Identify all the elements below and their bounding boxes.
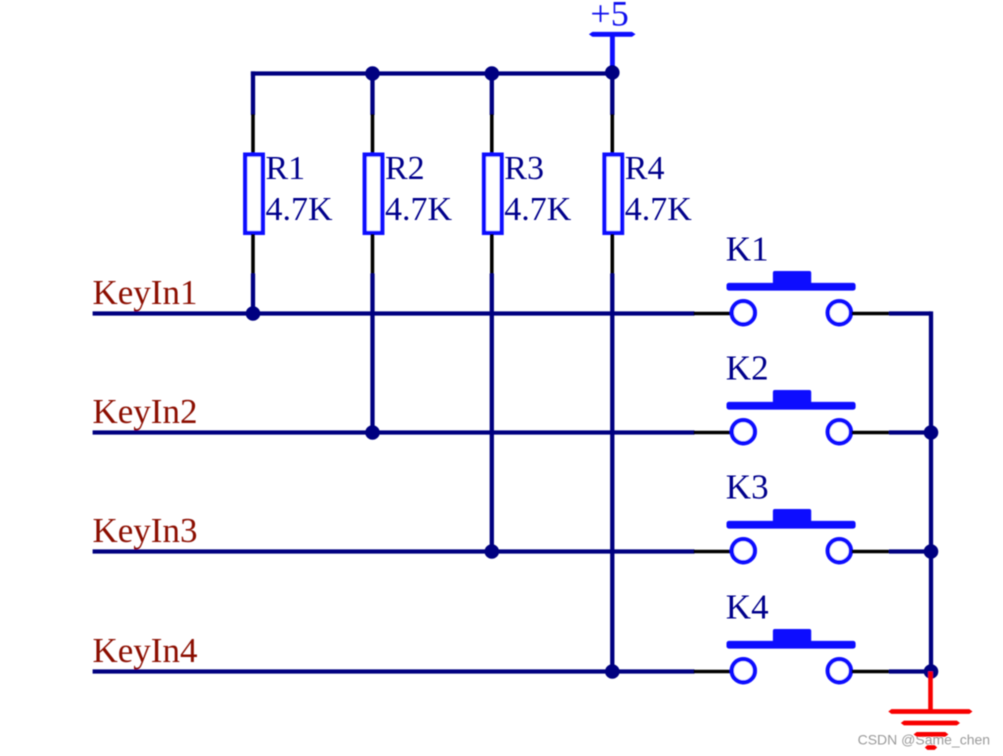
svg-text:K2: K2 — [726, 349, 769, 388]
switch K3 contact circle left — [732, 539, 755, 562]
svg-text:4.7K: 4.7K — [385, 191, 453, 228]
wire R4 column upper — [610, 74, 614, 116]
svg-text:KeyIn4: KeyIn4 — [93, 631, 198, 670]
svg-text:4.7K: 4.7K — [625, 191, 693, 228]
wire KeyIn3 row — [93, 549, 695, 553]
svg-text:KeyIn2: KeyIn2 — [93, 392, 198, 431]
svg-text:R4: R4 — [625, 150, 665, 187]
switch K2 contact circle right — [828, 420, 851, 443]
node junction K2-rail — [924, 425, 939, 440]
node junction bus +5 — [605, 65, 620, 80]
node junction KeyIn2-R2 — [365, 425, 380, 440]
resistor R4 pin 1 — [610, 114, 614, 154]
switch K1 pin 1 lead — [694, 312, 732, 316]
wire right rail vertical — [929, 311, 933, 671]
wire K1 to right rail — [889, 311, 931, 315]
svg-text:K3: K3 — [726, 468, 769, 507]
svg-text:KeyIn1: KeyIn1 — [93, 273, 198, 312]
node junction bus-R2 — [365, 66, 380, 81]
resistor R3 pin 1 — [490, 114, 494, 154]
switch K1 contact circle right — [828, 301, 851, 324]
node junction KeyIn4-R4 — [605, 664, 620, 679]
wire KeyIn1 row — [93, 311, 695, 315]
switch K2 contact circle left — [732, 420, 755, 443]
power +5 stem wire — [610, 34, 615, 72]
wire K4 to right rail — [889, 669, 931, 673]
switch K3 button cap — [727, 509, 856, 529]
resistor R2 pin 1 — [371, 114, 375, 154]
switch K1 pin 2 lead — [852, 312, 890, 316]
wire top bus — [251, 71, 612, 75]
svg-text:K4: K4 — [726, 588, 769, 627]
switch K2 pin 1 lead — [694, 431, 732, 435]
svg-text:KeyIn3: KeyIn3 — [93, 511, 198, 550]
switch K4 contact circle right — [828, 659, 851, 682]
node junction KeyIn3-R3 — [485, 544, 500, 559]
svg-text:R1: R1 — [266, 150, 306, 187]
wire R4 column lower — [610, 274, 614, 672]
switch K1 button cap — [727, 271, 856, 291]
svg-text:4.7K: 4.7K — [504, 191, 572, 228]
resistor R1 pin 2 — [251, 234, 255, 275]
wire KeyIn2 row — [93, 430, 695, 434]
ground stem wire — [928, 672, 933, 712]
wire R3 column upper — [490, 74, 494, 116]
resistor R1 body — [245, 155, 263, 233]
resistor R3 pin 2 — [490, 234, 494, 275]
ground bar 3 — [914, 732, 949, 737]
resistor R2 pin 2 — [371, 234, 375, 275]
wire KeyIn4 row — [93, 669, 695, 673]
switch K4 pin 1 lead — [694, 670, 732, 674]
power +5 bar symbol — [589, 32, 636, 37]
switch K1 contact circle left — [732, 301, 755, 324]
switch K2 button cap — [727, 390, 856, 410]
svg-text:+5: +5 — [590, 0, 628, 34]
svg-text:R2: R2 — [385, 150, 425, 187]
resistor R2 body — [365, 155, 383, 233]
switch K4 pin 2 lead — [852, 670, 890, 674]
svg-text:4.7K: 4.7K — [266, 191, 334, 228]
resistor R3 body — [484, 155, 502, 233]
switch K2 pin 2 lead — [852, 431, 890, 435]
svg-text:R3: R3 — [504, 150, 544, 187]
wire R3 column lower — [490, 274, 494, 552]
node junction rail-ground — [924, 664, 939, 679]
switch K4 button cap — [727, 629, 856, 649]
wire K2 to right rail — [889, 430, 931, 434]
switch K3 contact circle right — [828, 539, 851, 562]
node junction K3-rail — [924, 544, 939, 559]
wire R1 column upper — [251, 71, 255, 115]
resistor R1 pin 1 — [251, 114, 255, 154]
ground bar 1 — [888, 709, 972, 714]
node junction KeyIn1-R1 — [246, 306, 261, 321]
ground bar 4 — [925, 745, 937, 750]
svg-text:K1: K1 — [726, 229, 769, 268]
wire K3 to right rail — [889, 549, 931, 553]
resistor R4 pin 2 — [610, 234, 614, 275]
wire R1 column lower — [251, 274, 255, 314]
switch K3 pin 2 lead — [852, 550, 890, 554]
switch K4 contact circle left — [732, 659, 755, 682]
node junction bus-R3 — [485, 66, 500, 81]
switch K3 pin 1 lead — [694, 550, 732, 554]
wire R2 column upper — [370, 74, 374, 116]
ground bar 2 — [901, 721, 960, 726]
wire R2 column lower — [370, 274, 374, 433]
resistor R4 body — [605, 155, 623, 233]
